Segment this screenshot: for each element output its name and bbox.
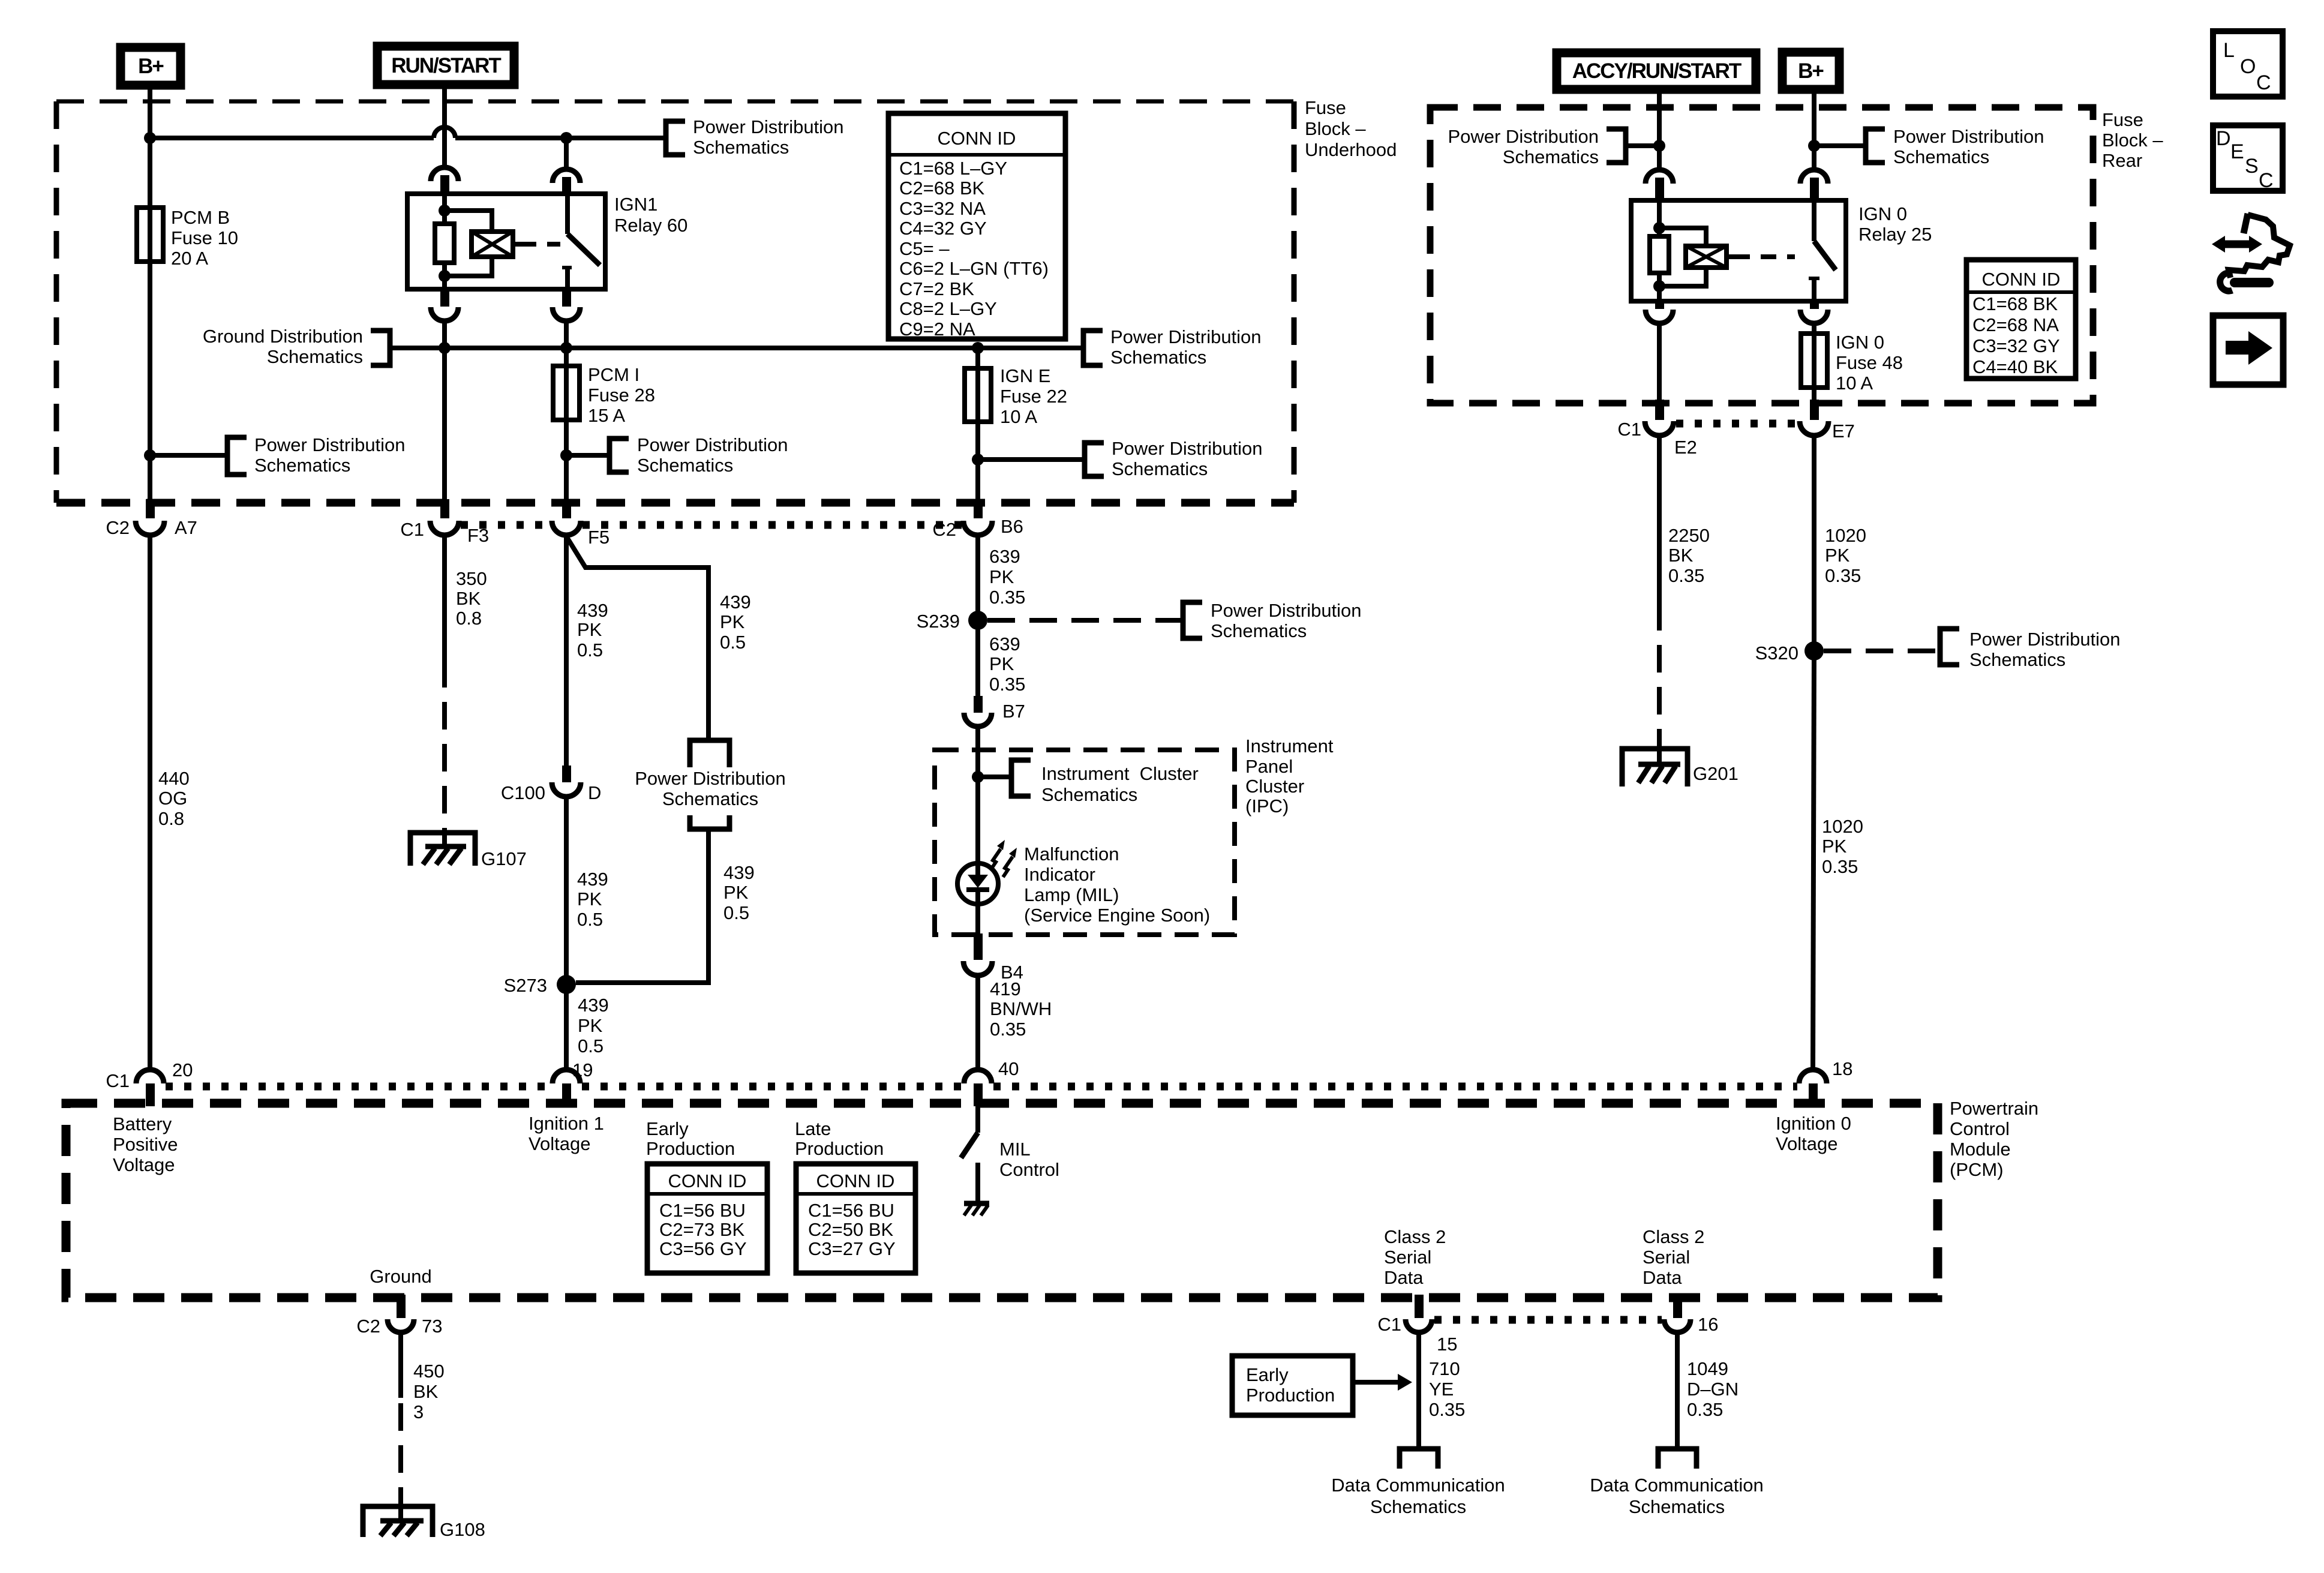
svg-text:PK: PK [577, 888, 602, 909]
icon DESC box [2213, 125, 2283, 192]
svg-text:Schematics: Schematics [254, 455, 350, 476]
svg-text:CONN ID: CONN ID [1982, 269, 2061, 290]
svg-text:Power Distribution: Power Distribution [1893, 126, 2044, 147]
svg-text:MIL: MIL [999, 1139, 1031, 1160]
relay IGN1 Relay 60 [407, 194, 687, 289]
wire 2250 BK 0.35 [1659, 436, 1710, 748]
svg-text:1020: 1020 [1822, 816, 1863, 837]
resistor (relay IGN 0) [1650, 236, 1669, 273]
wire fuse 48 to E7 [1812, 388, 1816, 402]
svg-text:0.8: 0.8 [158, 808, 184, 829]
off-page fork: data communication (pin 16) [1658, 1449, 1697, 1469]
svg-text:Block –: Block – [2102, 130, 2163, 151]
wire PCM I fuse to F5 [564, 420, 569, 502]
fuse IGN E Fuse 22 10A [965, 365, 1067, 427]
svg-text:439: 439 [577, 869, 608, 890]
svg-text:Control: Control [999, 1159, 1059, 1180]
svg-text:350: 350 [456, 568, 487, 589]
node junction ACCY ref [1653, 140, 1665, 152]
svg-text:C1: C1 [1377, 1314, 1401, 1335]
svg-text:C2=50 BK: C2=50 BK [808, 1219, 894, 1240]
svg-text:PK: PK [577, 619, 602, 640]
svg-text:CONN ID: CONN ID [816, 1170, 895, 1191]
ground symbol (MIL control internal) [964, 1203, 989, 1215]
svg-text:Data Communication: Data Communication [1590, 1475, 1763, 1496]
node junction PCM I ref [560, 449, 572, 461]
wire 439 PK 0.5 (S273 to pin 19) [566, 984, 609, 1070]
wire branch return to S273 [576, 829, 708, 983]
svg-text:Data Communication: Data Communication [1331, 1475, 1505, 1496]
off-page fork to Power Distribution Schematics (top) [690, 740, 729, 767]
svg-text:L: L [2223, 39, 2235, 62]
svg-text:BK: BK [456, 588, 481, 609]
svg-text:S239: S239 [917, 611, 960, 632]
wire relay 25 switch to fuse 48 [1812, 324, 1816, 334]
reference bracket: Power Distribution Schematics (B+ feed) [227, 434, 406, 476]
svg-text:YE: YE [1429, 1379, 1454, 1400]
ground G107 [410, 833, 527, 869]
node junction B+ bus [144, 132, 156, 144]
svg-text:IGN1: IGN1 [614, 194, 657, 215]
svg-text:Powertrain: Powertrain [1950, 1098, 2038, 1119]
instrument panel cluster dashed box [935, 750, 1235, 935]
svg-text:ACCY/RUN/START: ACCY/RUN/START [1572, 59, 1742, 83]
ground G108 [363, 1506, 485, 1540]
svg-text:C7=2 BK: C7=2 BK [899, 278, 974, 299]
svg-text:3: 3 [413, 1401, 424, 1422]
svg-text:C3=56 GY: C3=56 GY [659, 1238, 747, 1259]
svg-text:IGN E: IGN E [1000, 365, 1050, 386]
svg-text:439: 439 [578, 995, 609, 1016]
wire RUN/START feed down [442, 85, 447, 167]
fuse block - underhood (dashed enclosure) [56, 100, 1294, 104]
wire 439 PK 0.5 (C100 to S273) [566, 797, 608, 984]
svg-text:16: 16 [1698, 1314, 1718, 1335]
svg-text:(PCM): (PCM) [1950, 1159, 2004, 1180]
svg-text:RUN/START: RUN/START [391, 54, 501, 77]
connector C2 pin B6 (underhood block) [932, 499, 1023, 540]
reference bracket: S320 Power Distribution Schematics [1940, 629, 2121, 670]
power feed box B+ (right) [1782, 52, 1839, 89]
wire 419 BN/WH 0.35 [978, 975, 1052, 1070]
svg-text:A7: A7 [175, 517, 197, 538]
svg-text:G201: G201 [1693, 763, 1739, 784]
svg-text:D: D [588, 782, 601, 803]
svg-text:Instrument: Instrument [1245, 736, 1334, 757]
wire relay 25 coil return to C1 E2 [1657, 324, 1662, 402]
wire 1049 D-GN 0.35 [1677, 1332, 1739, 1449]
svg-text:PK: PK [989, 566, 1014, 587]
svg-text:Schematics: Schematics [1370, 1496, 1466, 1517]
svg-text:0.35: 0.35 [1822, 856, 1858, 877]
wire B+ feed down [148, 86, 152, 208]
svg-text:1049: 1049 [1687, 1358, 1728, 1379]
lower bus wire [390, 346, 1083, 350]
svg-text:15 A: 15 A [588, 405, 625, 426]
svg-text:Schematics: Schematics [267, 346, 363, 367]
svg-text:Serial: Serial [1384, 1247, 1431, 1268]
dashed reference wire S239 to power dist [987, 618, 1183, 623]
svg-text:Ignition 1: Ignition 1 [529, 1113, 604, 1134]
icon vehicle outline with arrow and wrench [2212, 214, 2290, 291]
wire 1020 PK 0.35 (S320 to pin 18) [1813, 651, 1863, 1070]
splice S239 [917, 611, 987, 632]
svg-text:S273: S273 [504, 975, 547, 996]
svg-text:Class 2: Class 2 [1384, 1226, 1446, 1247]
relay 25 actuation dashed link [1727, 254, 1734, 259]
relay switch contacts [562, 194, 600, 289]
wire 1020 PK 0.35 (E7 to S320) [1814, 436, 1866, 651]
node junction IGN E ref [972, 454, 984, 466]
off-page fork: data communication (pin 15) [1400, 1449, 1438, 1469]
svg-text:Fuse 22: Fuse 22 [1000, 386, 1067, 407]
svg-text:2250: 2250 [1668, 525, 1710, 546]
MIL control switch inside PCM [961, 1106, 978, 1202]
svg-text:PK: PK [723, 882, 749, 903]
svg-text:C2=68 NA: C2=68 NA [1972, 314, 2059, 335]
wire to reference bracket [150, 453, 227, 458]
connector terminal into relay coil (fuse block cavity) [431, 167, 458, 195]
dotted connector line C1 rear (E2-E7) [1676, 420, 1797, 428]
wire top bus segment left [150, 136, 434, 140]
svg-text:Schematics: Schematics [1893, 146, 1989, 167]
svg-text:G107: G107 [481, 848, 527, 869]
svg-text:Power Distribution: Power Distribution [1110, 326, 1262, 347]
svg-text:Power Distribution: Power Distribution [1211, 600, 1362, 621]
svg-text:Power Distribution: Power Distribution [254, 434, 406, 455]
node junction B+ rear ref [1808, 140, 1820, 152]
svg-text:C3=27 GY: C3=27 GY [808, 1238, 896, 1259]
wire relay coil return down [442, 320, 447, 502]
svg-text:O: O [2240, 55, 2256, 78]
svg-text:S320: S320 [1755, 643, 1798, 664]
svg-text:439: 439 [577, 600, 608, 621]
svg-text:Power Distribution: Power Distribution [635, 768, 786, 789]
svg-text:15: 15 [1437, 1334, 1457, 1355]
relay 25 coil return wires [1659, 268, 1706, 286]
svg-text:0.35: 0.35 [989, 674, 1025, 695]
svg-text:B7: B7 [1002, 701, 1025, 722]
svg-text:20: 20 [172, 1059, 193, 1080]
wire bus down to relay switch terminal [564, 138, 569, 169]
svg-text:1020: 1020 [1825, 525, 1866, 546]
ground G201 [1622, 749, 1739, 786]
coil winding (relay IGN 0) [1686, 246, 1727, 268]
wire IGN E fuse to C2 B6 [975, 422, 980, 502]
svg-text:C1: C1 [1617, 419, 1641, 440]
dotted connector line C1/C2 underhood [461, 521, 550, 529]
svg-text:Schematics: Schematics [1112, 458, 1208, 479]
dotted connector line PCM C1/C2 [166, 1083, 551, 1091]
lamp MIL (Malfunction Indicator Lamp) [957, 840, 1210, 926]
svg-text:639: 639 [989, 546, 1020, 567]
reference bracket: Ground Distribution Schematics [203, 326, 390, 367]
svg-text:18: 18 [1832, 1058, 1852, 1079]
svg-text:Power Distribution: Power Distribution [1969, 629, 2121, 650]
svg-text:Data: Data [1384, 1267, 1424, 1288]
svg-text:Ground Distribution: Ground Distribution [203, 326, 363, 347]
svg-text:E7: E7 [1832, 421, 1855, 442]
connector C1 pin 20 (PCM) [106, 1059, 193, 1106]
svg-text:IGN 0: IGN 0 [1836, 332, 1884, 353]
wire 350 BK 0.8 [445, 535, 487, 833]
svg-text:Schematics: Schematics [1211, 620, 1307, 641]
wire ACCY/RUN/START feed down [1657, 90, 1662, 169]
svg-text:Serial: Serial [1643, 1247, 1690, 1268]
fuse PCM I Fuse 28 15A [553, 364, 655, 426]
dotted connector line C1 (pins 15-16) [1434, 1316, 1662, 1324]
svg-text:C: C [2259, 169, 2274, 192]
connector pin 19 (PCM) [553, 1059, 593, 1106]
wire B+ rear feed down [1812, 90, 1816, 169]
relay output terminals (fuse block cavities) [431, 289, 580, 321]
svg-text:C8=2 L–GY: C8=2 L–GY [899, 298, 997, 319]
node junction bus to IGN E [972, 342, 984, 354]
svg-text:Power Distribution: Power Distribution [1112, 438, 1263, 459]
svg-text:Production: Production [795, 1138, 884, 1159]
svg-text:IGN 0: IGN 0 [1858, 203, 1907, 224]
connector terminal into relay 25 switch [1800, 170, 1828, 202]
svg-text:40: 40 [998, 1058, 1019, 1079]
svg-text:G108: G108 [440, 1519, 485, 1540]
connector C2 pin 73 (PCM ground) [356, 1295, 442, 1337]
svg-text:D–GN: D–GN [1687, 1379, 1739, 1400]
relay coil branch wires [442, 194, 447, 224]
svg-text:C100: C100 [501, 782, 545, 803]
svg-text:Power Distribution: Power Distribution [693, 116, 844, 137]
wire 639 PK 0.35 (S239 to B7) [978, 620, 1025, 698]
svg-text:Panel: Panel [1245, 756, 1293, 777]
wire hop over RUN/START feed [434, 127, 455, 138]
wire MIL to B4 [975, 905, 980, 936]
svg-text:PK: PK [989, 653, 1014, 674]
svg-text:Positive: Positive [113, 1134, 178, 1155]
CONN ID table (late production) [796, 1164, 915, 1273]
icon LOC box [2213, 31, 2283, 97]
fuse IGN 0 Fuse 48 10A [1801, 332, 1903, 394]
splice S273 [504, 975, 576, 996]
svg-text:Battery: Battery [113, 1113, 172, 1134]
CONN ID table (fuse block underhood) [888, 113, 1065, 340]
svg-text:Early: Early [1246, 1364, 1289, 1385]
reference bracket: ACCY Power Distribution Schematics [1448, 126, 1626, 167]
svg-text:Early: Early [646, 1118, 689, 1139]
reference bracket: B+ rear Power Distribution Schematics [1866, 126, 2044, 167]
fuse PCM B Fuse 10 20A [137, 207, 238, 269]
connector C100 pin D [501, 766, 602, 803]
connector terminal into relay switch (fuse block cavity) [553, 169, 580, 195]
svg-text:419: 419 [990, 978, 1021, 999]
connector C1 pin F3 (underhood block) [400, 499, 489, 546]
svg-text:0.35: 0.35 [1687, 1399, 1723, 1420]
svg-text:F5: F5 [588, 527, 609, 548]
svg-text:Late: Late [795, 1118, 831, 1139]
svg-text:0.5: 0.5 [720, 632, 746, 653]
svg-text:10 A: 10 A [1000, 406, 1037, 427]
PCM dashed enclosure [66, 1103, 1938, 1298]
svg-text:PCM I: PCM I [588, 364, 639, 385]
svg-text:BK: BK [413, 1381, 439, 1402]
svg-text:Schematics: Schematics [637, 455, 733, 476]
svg-text:CONN ID: CONN ID [668, 1170, 747, 1191]
svg-text:19: 19 [572, 1059, 593, 1080]
svg-text:C6=2 L–GN (TT6): C6=2 L–GN (TT6) [899, 258, 1049, 279]
wire top bus segment right [455, 136, 666, 140]
connector pin 18 (PCM) [1799, 1058, 1852, 1106]
svg-text:0.35: 0.35 [1668, 565, 1704, 586]
svg-text:440: 440 [158, 768, 190, 789]
svg-text:PK: PK [1822, 836, 1847, 857]
svg-text:710: 710 [1429, 1358, 1460, 1379]
svg-text:20 A: 20 A [171, 248, 208, 269]
svg-text:Voltage: Voltage [1776, 1133, 1837, 1154]
svg-text:Schematics: Schematics [1041, 784, 1137, 805]
connector C1 pin 15 (PCM) [1377, 1295, 1457, 1355]
svg-text:0.8: 0.8 [456, 608, 482, 629]
connector pin B7 (IPC) [964, 696, 1025, 727]
svg-text:C5= –: C5= – [899, 238, 950, 259]
coil winding (relay IGN1) [472, 232, 513, 257]
svg-text:Schematics: Schematics [1110, 347, 1206, 368]
svg-text:0.5: 0.5 [577, 909, 603, 930]
svg-text:Fuse: Fuse [1305, 97, 1346, 118]
wire relay switch output down [564, 320, 569, 366]
reference bracket: PCM I feed Power Distribution Schematics [609, 434, 788, 476]
connector pin 16 (PCM) [1664, 1295, 1718, 1335]
svg-text:C9=2 NA: C9=2 NA [899, 319, 975, 340]
svg-text:Schematics: Schematics [693, 137, 789, 158]
connector C2 pin A7 (underhood block) [106, 499, 197, 538]
svg-text:C4=40 BK: C4=40 BK [1972, 356, 2058, 377]
resistor (relay IGN1) [435, 224, 454, 263]
svg-text:C2=73 BK: C2=73 BK [659, 1219, 745, 1240]
relay 25 switch contacts [1809, 200, 1836, 301]
node junction to power dist reference [144, 449, 156, 461]
relay 25 coil branch wires [1657, 200, 1662, 236]
svg-text:Relay 60: Relay 60 [614, 215, 687, 236]
node junction to instrument cluster ref [972, 771, 984, 783]
svg-text:PK: PK [1825, 545, 1850, 566]
connector terminal into relay 25 coil [1646, 170, 1673, 202]
svg-text:0.5: 0.5 [578, 1035, 603, 1056]
svg-text:(Service Engine Soon): (Service Engine Soon) [1024, 905, 1210, 926]
wire IGN E fuse feed [975, 348, 980, 368]
svg-text:Voltage: Voltage [113, 1154, 175, 1175]
svg-text:BK: BK [1668, 545, 1694, 566]
connector pin B4 (IPC) [963, 933, 1023, 983]
svg-text:PK: PK [578, 1015, 603, 1036]
svg-text:0.5: 0.5 [577, 640, 603, 661]
svg-text:(IPC): (IPC) [1245, 795, 1289, 816]
dashed reference wire S320 to power dist [1824, 649, 1940, 653]
svg-text:Ignition 0: Ignition 0 [1776, 1113, 1851, 1134]
svg-text:C: C [2256, 71, 2271, 94]
reference bracket: IGN E feed Power Distribution Schematics [1085, 438, 1263, 479]
svg-text:Indicator: Indicator [1024, 864, 1095, 885]
power feed box ACCY/RUN/START [1557, 53, 1756, 89]
svg-text:639: 639 [989, 634, 1020, 655]
svg-text:0.35: 0.35 [1429, 1399, 1465, 1420]
svg-text:Fuse 28: Fuse 28 [588, 385, 655, 406]
svg-text:450: 450 [413, 1361, 445, 1382]
wire 710 YE 0.35 [1419, 1332, 1465, 1449]
off-page fork from Power Distribution Schematics (bottom) [690, 815, 729, 829]
svg-text:0.35: 0.35 [990, 1019, 1026, 1040]
svg-text:Data: Data [1643, 1267, 1682, 1288]
svg-text:B6: B6 [1001, 516, 1023, 537]
reference bracket: S239 Power Distribution Schematics [1183, 600, 1362, 641]
svg-text:Instrument Cluster: Instrument Cluster [1041, 763, 1199, 784]
svg-text:C1=56 BU: C1=56 BU [659, 1200, 746, 1221]
svg-text:439: 439 [723, 862, 755, 883]
svg-text:E: E [2230, 140, 2244, 163]
reference bracket: Instrument Cluster Schematics [1011, 760, 1199, 805]
svg-text:Malfunction: Malfunction [1024, 843, 1119, 864]
relay actuation dashed link [513, 242, 521, 247]
svg-text:Ground: Ground [370, 1266, 431, 1287]
svg-text:CONN ID: CONN ID [938, 128, 1016, 149]
CONN ID table (early production) [647, 1164, 767, 1273]
svg-text:Voltage: Voltage [529, 1133, 590, 1154]
svg-text:C3=32 GY: C3=32 GY [1972, 335, 2060, 356]
svg-text:Fuse 10: Fuse 10 [171, 227, 238, 248]
svg-text:0.5: 0.5 [723, 902, 749, 923]
reference bracket: lower bus to Power Distribution Schematics [1083, 326, 1262, 368]
wire B7 into IPC [975, 727, 980, 866]
node junction switch output to bus [560, 342, 572, 354]
svg-text:Production: Production [1246, 1385, 1335, 1406]
svg-text:Schematics: Schematics [1969, 649, 2065, 670]
svg-text:Lamp (MIL): Lamp (MIL) [1024, 884, 1119, 905]
wire 439 PK 0.5 (F5 to C100) [566, 535, 608, 767]
callout box Early Production [1232, 1356, 1412, 1415]
connector pin E7 (rear block) [1800, 400, 1855, 442]
svg-text:D: D [2216, 127, 2231, 150]
fuse block - rear (dashed enclosure) [1430, 107, 2093, 403]
wire 639 PK 0.35 (B6 to S239) [978, 535, 1025, 620]
svg-text:Class 2: Class 2 [1643, 1226, 1704, 1247]
svg-text:Underhood: Underhood [1305, 139, 1397, 160]
wire 440 OG 0.8 [150, 535, 190, 1070]
svg-text:C1: C1 [106, 1070, 130, 1091]
wire PCM B fuse to C2 A7 [148, 262, 152, 502]
connector C1 pin F5 (underhood block) [552, 499, 609, 548]
svg-text:C1=56 BU: C1=56 BU [808, 1200, 894, 1221]
svg-text:Schematics: Schematics [1629, 1496, 1725, 1517]
svg-text:439: 439 [720, 592, 751, 613]
node junction bus to relay switch [560, 132, 572, 144]
CONN ID table (fuse block rear) [1966, 260, 2076, 379]
wire label 439 PK 0.5 (branch lower) [723, 862, 755, 923]
svg-text:Block –: Block – [1305, 118, 1366, 139]
svg-text:PCM B: PCM B [171, 207, 230, 228]
power feed box RUN/START [377, 46, 514, 85]
icon arrow box [2213, 316, 2283, 385]
svg-text:73: 73 [422, 1316, 442, 1337]
svg-text:Control: Control [1950, 1118, 2010, 1139]
svg-text:PK: PK [720, 611, 745, 632]
svg-text:Schematics: Schematics [662, 788, 758, 809]
svg-text:E2: E2 [1674, 437, 1697, 458]
svg-text:BN/WH: BN/WH [990, 998, 1052, 1019]
wire branch 439 PK 0.5 to power dist [566, 536, 751, 738]
svg-text:C2: C2 [106, 517, 130, 538]
svg-text:B+: B+ [138, 55, 164, 78]
svg-text:C1=68 L–GY: C1=68 L–GY [899, 158, 1007, 179]
svg-text:Relay 25: Relay 25 [1858, 224, 1932, 245]
svg-text:C2=68 BK: C2=68 BK [899, 178, 985, 199]
power feed box B+ (left) [121, 47, 181, 85]
